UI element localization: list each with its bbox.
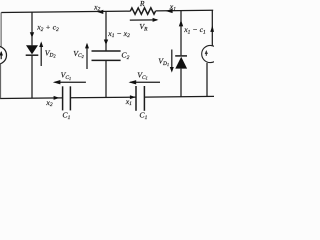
svg-text:x1 − c1: x1 − c1 [183,25,206,35]
resistor R [130,8,155,15]
svg-text:x1 − x2: x1 − x2 [107,29,130,39]
wire top left segment [1,11,130,12]
arrow current c1 right edge [210,25,214,32]
wire bottom middle segment [71,96,136,99]
arrow VR [130,19,157,21]
source arrow right [205,52,207,56]
capacitor C2 [92,50,121,52]
arrow VD2 [40,43,42,66]
capacitor C1 right [135,86,137,111]
arrow x2 on top wire [97,10,103,14]
wire bottom right segment [145,95,214,98]
arrow current x1-c1 [179,20,183,26]
arrow x1 on bottom wire [130,95,136,99]
wire left edge vertical bottom [0,64,2,99]
wire C2 branch lower [105,60,107,97]
wire D1 branch upper [180,11,182,56]
source arrow left [0,52,2,59]
arrow VC1 right [130,81,160,83]
arrow x2 on bottom wire [54,96,60,100]
wire top right segment [156,9,214,12]
wire left edge vertical top [0,12,2,47]
wire C2 branch upper [105,11,107,51]
source circle left [0,46,7,64]
diode D1 [175,55,187,57]
arrow VD1 [171,50,173,71]
wire D1 branch lower [180,69,182,97]
wire D2 branch upper [31,12,33,45]
arrow x1 on top wire [166,9,173,13]
arrow VC1 left [55,81,86,83]
wire right edge vertical bottom [206,63,208,97]
svg-text:x2 + c2: x2 + c2 [36,23,59,33]
source circle right [202,45,219,62]
wire bottom left segment [0,97,62,100]
svg-text:R: R [139,0,145,8]
arrow VC2 [86,44,88,69]
arrow current x2+c2 [30,32,34,38]
diode D2 [26,45,38,54]
arrow current x1-x2 [104,40,108,46]
wire D2 branch lower [31,56,33,98]
capacitor C1 left [62,86,64,110]
wire right edge vertical top [211,10,213,46]
